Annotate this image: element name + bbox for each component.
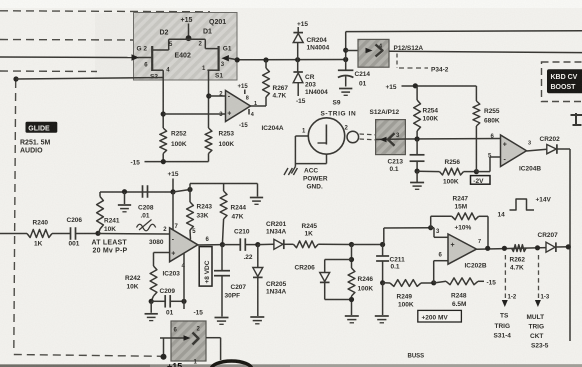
resistor R241 label [104,218,120,234]
wire rail to R243 [173,190,190,193]
resistor R262 label [510,257,526,272]
label E402 [175,53,191,60]
dashed plug linkage [360,134,376,140]
capacitor C207 label [225,284,247,300]
resistor R256 [417,168,476,175]
node top rail [343,48,348,53]
capacitor C208 label [138,205,154,220]
diode CR206 [320,260,352,300]
IC202B pin labels [436,229,481,259]
node bottom dashed [161,354,167,360]
node CR206 tap [349,257,354,262]
ground R242 [145,314,158,321]
resistor R240 label [33,220,49,248]
wire pin3 IC204A [163,113,225,115]
resistor R247 label [453,196,469,211]
IC204B input signs [503,142,507,164]
S12A pin 3 [396,133,400,139]
jack S9 contacts [318,125,327,145]
node R262 right [535,245,540,250]
wire drain rail [169,38,206,40]
label R251 5M AUDIO [20,140,51,155]
label IC204A [262,125,284,132]
resistor R242 label [125,275,141,291]
label -15 CR203 [296,98,306,105]
chassis ground ACC [284,167,297,176]
connector S12A/P12 hatched box [376,120,406,155]
node input R241 [95,231,100,236]
dashed border third line [0,70,97,73]
label P12/S12A [394,45,424,52]
junction drain feed [186,35,192,41]
boxed label +8 VDC [199,247,212,287]
wire input to IC203 [98,233,170,236]
diode CR202 label [540,136,561,143]
wire +15 lead [172,179,174,193]
label IC204B [519,166,541,173]
jack S9 circle [308,118,344,154]
node R256 R255 [474,169,479,174]
diode CR204 [293,27,303,60]
wire pin6 IC202B [434,261,448,283]
resistor R254 label [423,108,439,123]
capacitor C213 label [388,159,404,174]
wire +15 rail lower [100,191,173,193]
pulse waveform symbol [510,199,535,210]
wire audio to S2 [16,78,163,80]
wire G2 arrow to bar [138,57,152,59]
label P34-2 [431,67,449,74]
label 14 [498,212,506,219]
capacitor C206 label [67,217,83,248]
resistor R241 [97,192,104,233]
dashed line MULT trig [538,255,540,298]
op-amp IC204A [226,91,251,122]
diode CR201 [258,239,284,249]
label G1 [223,46,232,53]
wire pin2 IC204A [209,95,226,97]
dashed border left vertical [14,80,16,353]
op-amp IC202B [448,234,477,264]
wire CR207 out [556,246,570,248]
wire C211 to ground [382,283,384,315]
capacitor C207 [214,245,230,317]
boxed label GLIDE [26,122,58,133]
wire into P12 connector [346,50,360,52]
node S2 pin3 tap [161,111,166,116]
analog switch Q201 hatched box [134,13,238,81]
label S9 [333,100,341,107]
wire G1 to bus [229,58,237,60]
node C211 bottom [380,280,385,285]
node audio in [13,76,18,81]
node C211 top [380,242,385,247]
label S12A/P12 [370,109,400,116]
resistor R244 [220,184,227,245]
wire source S2 [152,70,163,128]
capacitor C211 label [390,257,406,271]
scan artifact bottom band [0,364,582,367]
wire pin7 IC203 [172,192,174,231]
label -15 pin4 [194,310,204,317]
IC204A input signs [227,93,231,117]
label IC203 [163,271,181,278]
node C209 left [149,299,154,304]
S12A connector arrows [380,133,395,145]
node IC203 out [220,242,225,247]
node R246 top [349,242,354,247]
resistor R245 [284,241,352,248]
wire R252 bottom [162,154,164,162]
wire pin3 step [431,228,448,238]
diode CR203 [293,60,303,96]
wire +15 rail [402,85,477,87]
resistor R267 label [273,85,289,100]
node R243 top [187,187,192,192]
node +15 rail [170,189,175,194]
transistor Q201a channel bar [151,46,153,71]
IC204A -15 pin [239,109,249,129]
resistor R253 [205,128,212,154]
wire top rail right [346,30,582,33]
diode CR205 label [266,281,287,296]
wire pin3 riser [384,228,431,245]
ground C211 [375,316,389,323]
node out dash1 [502,246,507,251]
resistor R240 [0,230,56,238]
resistor R252 [160,128,167,154]
resistor R253 label [219,131,235,149]
connector stub right edge [571,113,582,125]
resistor R262 [512,245,526,252]
wire +15 to drains [188,24,190,40]
node R254 top [413,83,418,88]
label 1-2 [508,295,517,301]
diode CR202 [547,144,557,154]
label 1-3 [541,295,550,301]
diode CR206 label [295,265,316,272]
op-amp IC203 3080 [170,228,198,262]
node R249 R248 [431,280,436,285]
IC203 input signs [171,237,175,258]
node KBD bus tap [566,244,571,249]
ground C207 [215,318,229,325]
label +15 bottom cut [167,362,182,367]
node bus R267 [263,57,268,62]
label +15 supply E402 [181,17,193,24]
diode CR207 [546,242,556,252]
wire drain lead D1 [205,39,218,48]
ground C213 [410,183,424,190]
node R254 bottom [415,136,420,141]
connector P12/S12A hatched box [358,39,389,67]
wire R253 bottom [208,154,210,162]
P12 connector arrow [366,45,383,57]
node S1 pin2 tap [206,93,211,98]
label S-TRIG IN [321,111,357,118]
boxed label +200 MV [418,310,462,322]
wire R246 top [351,245,353,269]
wire G2 input [0,56,139,59]
arrow MULT trig [535,300,541,307]
wire C213 to ground [416,171,418,182]
wire IC204B out [527,149,547,151]
wire P12 out right [389,51,582,52]
label S2 [150,74,158,81]
wire drain lead D2 [152,39,169,50]
arrow TS trig [502,300,508,307]
jack pin labels [302,126,349,135]
resistor R246 label [358,276,374,293]
wire bus to top rail [345,32,347,60]
label S1 [215,73,223,80]
resistor R248 [434,278,484,285]
wire R245 to C211 [352,244,383,246]
diode CR205 [253,245,263,316]
dashed stub P34-2 [397,54,428,69]
label TS TRIG S31-4 [494,313,512,340]
label D1 [203,28,212,35]
resistor R248 label [451,293,467,309]
wire KBD CV bus vertical [569,149,571,341]
ground R246 [345,316,359,323]
wire -15 rail [145,161,209,163]
dashed box KBD CV BOOST [542,62,582,102]
resistor R242 [150,266,157,301]
capacitor C209 label [160,288,176,317]
ground cap symbol rail [118,192,131,212]
resistor R267 [263,60,270,97]
wire jack pin1 [295,136,308,167]
node C213 bottom [415,169,420,174]
node pin3 IC202B [428,225,433,230]
wire IC202B output [477,248,547,250]
gate arrow G2 [132,54,140,60]
IC204A +15 pin [238,84,249,94]
resistor R249 label [397,294,414,309]
node C210 CR205 [255,242,260,247]
capacitor C214 label [355,71,371,88]
wire IC204B pin5 [476,157,500,172]
IC202B input sign [451,242,455,249]
diode CR201 label [266,221,287,236]
dashed line TS trig [504,255,506,298]
node bus E402 [235,57,240,62]
label +14V [536,197,552,204]
resistor R255 label [484,108,500,125]
label +15 CR204 [297,21,308,28]
label Q201 [209,19,226,26]
label BUSS [408,354,425,360]
capacitor C210 [222,238,257,251]
wire main bus [237,59,346,61]
node gnd tap rail [122,189,127,194]
wire upper rail R244 [190,184,258,197]
capacitor C208 [143,185,148,198]
resistor R247 feedback [431,213,488,248]
wire R242 to ground [150,301,152,313]
resistor R244 label [231,205,247,221]
node fb out [485,246,490,251]
wire S12A to IC204B [405,138,500,141]
resistor R246 [348,268,355,315]
dashed border bottom line [14,355,162,357]
label 3080 [149,239,164,246]
node -15 rail [161,159,166,164]
wire bottom connector drop [163,338,165,357]
resistor R256 label [443,159,460,186]
wire into bottom connector [160,333,199,345]
capacitor C209 [151,295,184,308]
resistor R243 [187,190,194,240]
label -15 rail [131,160,141,167]
ground R244 rail [250,198,263,205]
capacitor C210 label [234,229,253,262]
wire IC204A output [251,97,267,106]
resistor R245 label [302,223,318,238]
plug tip circle [347,131,359,143]
IC204A pin labels [219,92,257,119]
resistor R255 [473,86,480,172]
resistor R243 label [197,204,213,220]
capacitor C206 [56,227,98,240]
dashed border top line [0,11,210,12]
capacitor C214 [338,60,354,87]
label +15 R254 rail [386,84,397,91]
node bus CR diodes [295,57,300,62]
ground CR205 [250,317,264,324]
label +15 lower [168,171,179,178]
label MULT TRIG CKT S23-5 [527,314,549,350]
wire through S12A box [376,138,406,141]
wire jack sleeve [295,154,326,163]
label ACC POWER GND [303,168,328,191]
resistor R254 [414,86,421,139]
wire pin3 IC203 [154,253,170,267]
label box KBD CV BOOST [547,69,582,93]
label tolerance +10% [455,225,472,232]
diode CR203 label [305,74,328,96]
IC203 pin labels [163,224,209,270]
resistor R252 label [171,131,187,149]
resistor R249 [383,280,434,287]
wire CR202 to KBD bus [557,148,570,150]
P12 pin 4 [379,44,383,50]
gate arrow G1 [221,55,229,61]
diode CR204 label [307,37,330,52]
dashed border second line [0,39,133,42]
node R246 bottom [349,297,354,302]
wire pin4 IC203 [183,254,185,310]
E402 pin labels [144,42,225,74]
bottom connector pins [174,327,201,366]
capacitor C213 [410,139,425,171]
wire source S1 [207,70,218,128]
label AT LEAST 20 Mv P-P [92,240,128,255]
wire bottom connector out [206,338,221,360]
node C209 right [181,299,186,304]
IC204B pin labels [488,134,531,160]
ellipse annotation bottom [211,361,252,367]
waveform squiggle marker [137,220,156,231]
capacitor C211 [376,245,389,283]
label IC202B [465,263,487,270]
diode CR207 label [538,232,559,239]
node bus C214 [343,57,348,62]
connector bottom hatched box [171,321,206,361]
ground C214 [339,89,352,96]
label -15 R248 [487,280,497,287]
boxed label -2V [471,176,491,185]
label D2 [160,29,169,36]
label G2 [137,45,148,52]
wire IC203 output [198,244,223,246]
op-amp IC204B [501,135,527,167]
transistor Q201b channel bar [218,46,220,71]
